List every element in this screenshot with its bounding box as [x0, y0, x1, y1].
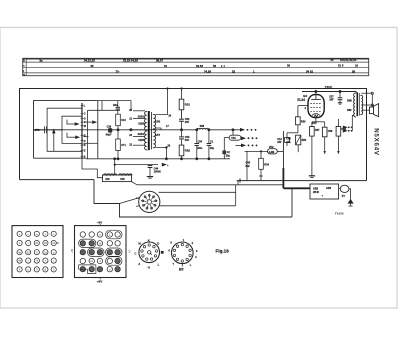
- socket U1 pin labels: [134, 239, 159, 270]
- svg-text:25F: 25F: [185, 121, 190, 124]
- wire: switch feed with arrow: [83, 121, 97, 143]
- svg-text:V51: V51: [231, 137, 236, 140]
- grid resistor R56: [296, 117, 306, 133]
- capacitor C52: [179, 118, 190, 130]
- svg-text:62,63: 62,63: [196, 64, 203, 68]
- svg-text:Fig.16: Fig.16: [216, 249, 230, 254]
- svg-text:L: L: [190, 263, 192, 267]
- tone pot R55: [296, 135, 307, 152]
- N5X64V designation: [373, 128, 380, 156]
- grid lead with pin 2: [298, 106, 308, 117]
- svg-text:T: T: [172, 262, 174, 266]
- svg-text:8nF: 8nF: [246, 165, 251, 168]
- heater run from S45: [132, 182, 284, 185]
- schematic outer border: [20, 89, 367, 181]
- socket U2 pins: [173, 243, 191, 262]
- T2 core: [357, 92, 359, 116]
- screen resistor R59: [336, 119, 346, 154]
- svg-text:R51: R51: [185, 103, 191, 107]
- svg-text:F1636: F1636: [335, 211, 344, 215]
- wire socket right pair: [159, 185, 236, 206]
- svg-text:D: D: [84, 140, 86, 143]
- svg-text:95: 95: [91, 64, 95, 68]
- potentiometer V52 2,4M: [268, 146, 284, 154]
- T2 primary winding: [354, 93, 356, 117]
- socket U1 (octal): [139, 242, 160, 263]
- table row letters: [23, 60, 25, 77]
- table row3 values: [116, 69, 356, 73]
- wire: S46 top to heater rail: [114, 159, 116, 174]
- svg-text:54 52: 54 52: [306, 69, 313, 73]
- resistor ST1: [116, 130, 127, 159]
- chassis staircase wire: [94, 180, 310, 217]
- svg-text:23a: 23a: [113, 103, 118, 107]
- T1 right leads: [156, 89, 172, 159]
- wire: switch bottom to S46 box: [82, 158, 103, 178]
- cathode lead: [312, 118, 325, 128]
- svg-text:R56: R56: [301, 120, 306, 123]
- svg-text:10n: 10n: [286, 141, 291, 144]
- T2 primary leads: [352, 92, 356, 132]
- capacitor C16 box: [277, 133, 289, 146]
- svg-text:S1B2: S1B2: [138, 116, 145, 119]
- svg-text:B: B: [84, 144, 86, 147]
- ground wire from R57: [311, 136, 313, 176]
- socket U2 (noval): [172, 242, 194, 264]
- svg-text:R52: R52: [185, 148, 191, 152]
- svg-text:−1V: −1V: [128, 249, 131, 254]
- resistor R51: [179, 99, 190, 119]
- rectifier box GB5/GB6: [310, 184, 339, 199]
- arrow row 3: [236, 144, 258, 147]
- tube cathode arc: [312, 114, 320, 117]
- socket U1 index mark: [161, 251, 164, 254]
- inner rectangle C: [62, 116, 82, 143]
- wire socket to x-junction: [120, 198, 140, 204]
- svg-text:L: L: [158, 263, 160, 267]
- svg-text:L 1: L 1: [221, 64, 225, 68]
- svg-text:20F: 20F: [277, 141, 282, 144]
- socket U1 pins: [141, 244, 158, 260]
- svg-text:A: A: [138, 262, 140, 266]
- potentiometer V51: [224, 129, 241, 151]
- choke S58 in rail: [197, 125, 209, 130]
- svg-text:N5X64V: N5X64V: [373, 128, 380, 156]
- svg-text:51 5: 51 5: [338, 64, 344, 68]
- svg-text:150,51,52,53: 150,51,52,53: [340, 58, 357, 62]
- svg-text:20μ: 20μ: [210, 147, 215, 150]
- svg-text:GB6: GB6: [326, 187, 332, 190]
- grid box 1 tick: [56, 242, 59, 244]
- wire: top link to transformer tap 20: [98, 101, 131, 111]
- svg-text:70-: 70-: [116, 70, 120, 74]
- tube grids (dashed): [310, 104, 322, 112]
- socket U2 index tick and name: [181, 264, 183, 267]
- svg-text:S57: S57: [155, 133, 161, 137]
- ground symbol: [309, 176, 315, 178]
- ground under C44: [147, 177, 153, 179]
- pilot socket pins: [141, 194, 157, 210]
- T2 secondary leads with terminals: [362, 92, 374, 110]
- svg-text:20μ: 20μ: [226, 154, 231, 157]
- rail continuation arrow with dots: [240, 129, 256, 132]
- tube anode and stem: [311, 92, 321, 100]
- fuse/lamp ZY: [339, 185, 349, 198]
- bypass cap C58: [322, 127, 332, 154]
- electrolytic C29 60uF: [106, 125, 113, 136]
- svg-text:M: M: [84, 125, 86, 128]
- svg-text:S58: S58: [200, 125, 205, 128]
- svg-text:2B4F: 2B4F: [313, 191, 320, 194]
- svg-text:S1B5: S1B5: [138, 139, 145, 142]
- inner rectangle B (switch box): [47, 108, 82, 151]
- svg-text:S89: S89: [347, 109, 352, 112]
- capacitor C2 electrolytic: [223, 151, 231, 159]
- HT top rail right: [302, 91, 356, 93]
- svg-text:R57: R57: [315, 129, 320, 132]
- T1 winding labels right: [155, 119, 161, 137]
- decoupling cap C57: [329, 92, 342, 105]
- coupling wire into grid network: [287, 132, 298, 134]
- svg-text:1500K: 1500K: [154, 171, 162, 174]
- svg-text:GB5: GB5: [313, 188, 319, 191]
- capacitor C53: [179, 130, 190, 145]
- svg-text:S56: S56: [155, 119, 161, 123]
- T1 secondary winding: [153, 114, 156, 147]
- svg-text:R54: R54: [264, 164, 269, 167]
- resistor R52: [179, 145, 190, 159]
- table frame: [23, 58, 369, 75]
- T1 primary winding: [145, 111, 148, 150]
- svg-text:O: O: [84, 118, 86, 121]
- pilot socket (dial lamp holder): [139, 191, 160, 212]
- grid box 1 frame: [12, 226, 63, 278]
- svg-text:56: 56: [287, 64, 291, 68]
- svg-text:D: D: [157, 241, 159, 245]
- link bottom border to heater run: [237, 181, 239, 185]
- shielded drop wire (thick): [283, 131, 310, 188]
- main HT rail: [34, 129, 241, 131]
- cathode resistor R57: [310, 127, 320, 137]
- grid box 1 circles: [17, 231, 56, 272]
- capacitor C45 with resistor R54: [246, 151, 270, 181]
- wiper riser with up arrow: [53, 130, 55, 152]
- svg-text:56: 56: [213, 64, 217, 68]
- wire with C44 to ground: [114, 163, 169, 167]
- lower mid wire to V52: [240, 151, 268, 182]
- wire from top border: [167, 88, 182, 99]
- svg-text:60μF: 60μF: [106, 133, 112, 136]
- svg-text:H: H: [148, 265, 150, 269]
- svg-text:S45: S45: [120, 178, 125, 181]
- svg-text:+0V: +0V: [71, 248, 74, 253]
- svg-text:ST1: ST1: [121, 144, 126, 147]
- capacitor C54: [195, 130, 203, 159]
- svg-text:ZY: ZY: [342, 194, 346, 198]
- mains plug lead: [348, 189, 353, 206]
- T1 left taps: [131, 111, 145, 145]
- switch bus bar: [81, 103, 83, 158]
- svg-text:K: K: [148, 239, 150, 243]
- heater winding box S46/S45: [103, 174, 133, 182]
- svg-text:C29: C29: [107, 125, 112, 128]
- grid box 1 pin glyphs: [18, 233, 56, 272]
- svg-text:C58: C58: [328, 130, 333, 133]
- arrow-dot continuation near R59: [343, 126, 352, 132]
- svg-text:R55: R55: [302, 139, 307, 142]
- grid box 2 glyphs: [90, 233, 111, 272]
- speaker: [370, 104, 379, 117]
- switch contact ticks + letters: [81, 105, 84, 156]
- svg-text:53,52 54,58: 53,52 54,58: [123, 58, 138, 62]
- svg-text:74,56: 74,56: [204, 70, 211, 74]
- svg-text:S16: S16: [121, 119, 126, 122]
- svg-text:S8B: S8B: [347, 99, 352, 102]
- table row1 values: [40, 58, 357, 63]
- svg-text:C: C: [134, 252, 136, 256]
- svg-text:S1B6: S1B6: [138, 122, 145, 125]
- T2 secondary winding: [360, 95, 362, 114]
- pilot socket external ticks: [136, 198, 139, 207]
- svg-text:230V: 230V: [324, 86, 333, 90]
- wire: aerial line from switch: [88, 101, 121, 159]
- svg-text:2,4M: 2,4M: [269, 151, 275, 154]
- svg-text:100n: 100n: [197, 147, 203, 150]
- heater wire low: [86, 158, 230, 160]
- capacitor C55: [207, 130, 215, 159]
- table row2 values: [91, 64, 359, 68]
- arrow row 2: [241, 137, 257, 140]
- mains entry STR: [34, 126, 63, 133]
- grid box 2 cluster outlines: [79, 230, 122, 273]
- grid box 2 circles: [80, 232, 120, 272]
- svg-text:50F: 50F: [185, 139, 190, 142]
- svg-text:25F: 25F: [329, 99, 334, 102]
- T1 tap labels: [129, 109, 145, 146]
- svg-text:55: 55: [331, 58, 335, 62]
- capacitor C44 1500: [148, 165, 162, 177]
- grid box 1 extra glyphs: [19, 233, 55, 272]
- C56 label: [286, 138, 291, 144]
- svg-text:EL84: EL84: [297, 98, 305, 102]
- svg-text:9a: 9a: [40, 59, 44, 63]
- svg-text:−8V: −8V: [97, 220, 102, 224]
- svg-text:S46: S46: [105, 178, 110, 181]
- svg-text:S1B4: S1B4: [138, 133, 145, 136]
- svg-text:61: 61: [164, 64, 168, 68]
- tube envelope: [308, 95, 324, 118]
- svg-text:54,51,55: 54,51,55: [84, 58, 95, 62]
- svg-text:58,57: 58,57: [156, 58, 163, 62]
- inner rectangle A: [34, 101, 98, 159]
- tube labels: [297, 94, 307, 102]
- svg-text:C: C: [84, 112, 86, 115]
- socket U2 pin labels: [168, 238, 197, 267]
- svg-text:B5: B5: [179, 267, 183, 271]
- svg-text:52: 52: [232, 70, 236, 74]
- grid box 2 labels: [71, 220, 131, 283]
- resistor S16: [116, 114, 127, 130]
- grid box 2 frame: [75, 226, 127, 278]
- svg-text:C54: C54: [198, 140, 203, 143]
- svg-text:+8V: +8V: [97, 279, 102, 283]
- capacitor 23a: [113, 101, 120, 115]
- svg-text:56: 56: [352, 69, 356, 73]
- svg-text:19: 19: [355, 64, 359, 68]
- switch wiper arrows: [67, 120, 80, 139]
- T2 winding labels: [347, 99, 352, 112]
- T1 core: [149, 111, 152, 150]
